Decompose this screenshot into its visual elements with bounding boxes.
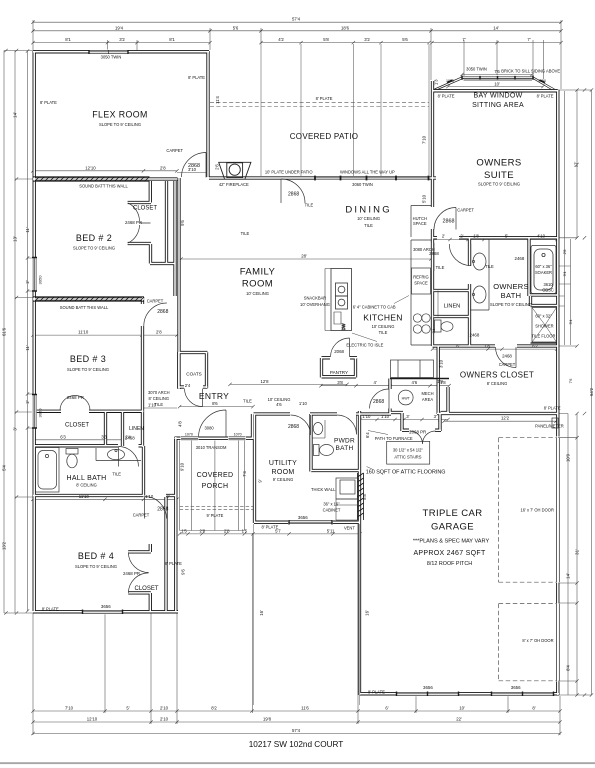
svg-text:2'8: 2'8 xyxy=(199,528,205,533)
svg-text:1050: 1050 xyxy=(538,79,546,83)
door 2068 pantry (swing up) xyxy=(331,338,350,357)
svg-text:5'4: 5'4 xyxy=(2,465,7,471)
kitchen hall dims xyxy=(141,386,449,408)
HWT xyxy=(398,390,413,405)
mech dims xyxy=(360,419,448,421)
svg-text:UTILITY: UTILITY xyxy=(269,460,297,467)
svg-text:10' PLATE UNDER PATIO: 10' PLATE UNDER PATIO xyxy=(265,170,313,175)
svg-text:THICK WALL: THICK WALL xyxy=(311,487,336,492)
garage OH door lines on wall xyxy=(557,438,560,681)
svg-text:SPACE: SPACE xyxy=(414,281,428,286)
svg-text:2468 PR: 2468 PR xyxy=(125,220,142,225)
svg-text:10': 10' xyxy=(459,706,465,711)
svg-text:PWDR: PWDR xyxy=(334,438,355,445)
svg-text:8' PLATE: 8' PLATE xyxy=(368,689,385,694)
svg-text:BATH: BATH xyxy=(335,445,353,452)
porch dashed plate lines xyxy=(180,506,253,509)
svg-text:VENT: VENT xyxy=(344,525,355,530)
bay dims 7'6 and 10' xyxy=(448,75,543,87)
right dim col 4 (bath fixtures) xyxy=(558,91,571,345)
dimension text: top rows xyxy=(65,17,531,87)
svg-text:3': 3' xyxy=(13,427,18,430)
svg-text:PORCH: PORCH xyxy=(202,483,229,490)
svg-text:9' PLATE: 9' PLATE xyxy=(206,513,223,518)
svg-text:CARPET: CARPET xyxy=(457,208,474,213)
svg-text:COVERED PATIO: COVERED PATIO xyxy=(290,132,359,141)
svg-text:SLOPE TO 9' CEILING: SLOPE TO 9' CEILING xyxy=(478,182,520,187)
svg-text:5': 5' xyxy=(126,706,129,711)
svg-text:APPROX 2467 SQFT: APPROX 2467 SQFT xyxy=(413,550,486,557)
door 2868 owners suite (swing into suite) xyxy=(434,208,456,230)
window glyphs xyxy=(32,50,554,696)
svg-text:2868: 2868 xyxy=(288,192,299,198)
svg-text:2'10: 2'10 xyxy=(160,706,169,711)
svg-text:3656: 3656 xyxy=(423,685,433,690)
svg-text:1070: 1070 xyxy=(234,433,242,437)
svg-text:14': 14' xyxy=(493,25,499,30)
dimension text: interior xyxy=(60,165,545,533)
svg-text:SLOPE TO 9' CEILING: SLOPE TO 9' CEILING xyxy=(75,564,117,569)
svg-text:TILE: TILE xyxy=(243,399,252,404)
bed3 dims row xyxy=(33,334,177,336)
porch outline xyxy=(180,441,245,531)
hatch: garage thick wall xyxy=(358,473,364,520)
svg-text:3656: 3656 xyxy=(101,604,111,609)
svg-text:8' PLATE: 8' PLATE xyxy=(537,93,554,98)
svg-text:2468 PR: 2468 PR xyxy=(123,571,140,576)
svg-text:3'2: 3'2 xyxy=(364,37,370,42)
svg-text:CARPET: CARPET xyxy=(499,362,516,367)
svg-text:7'4: 7'4 xyxy=(242,471,247,477)
door 2468PR bed4 closet butterfly xyxy=(128,553,148,593)
door 3080 entry (swing up-left into entry) xyxy=(199,410,227,438)
svg-text:1'10: 1'10 xyxy=(299,401,308,406)
svg-text:12'10: 12'10 xyxy=(85,165,96,170)
svg-text:BATH: BATH xyxy=(501,291,522,300)
svg-text:3050: 3050 xyxy=(38,275,43,285)
svg-text:61'6: 61'6 xyxy=(2,327,7,336)
svg-text:SLOPE TO 9' CEILING: SLOPE TO 9' CEILING xyxy=(490,302,532,307)
window 3050 bed2 left xyxy=(33,258,36,292)
svg-text:COVERED: COVERED xyxy=(197,472,234,479)
door 2468 powder (swing down-left) xyxy=(337,415,357,435)
svg-text:DW: DW xyxy=(341,323,346,330)
bottom dim rows xyxy=(33,711,560,734)
svg-text:2868: 2868 xyxy=(373,399,384,405)
svg-text:2868: 2868 xyxy=(429,251,439,256)
svg-text:CLOSET: CLOSET xyxy=(133,206,157,212)
svg-text:***PLANS & SPEC MAY VARY: ***PLANS & SPEC MAY VARY xyxy=(413,539,490,545)
svg-text:10' CEILING: 10' CEILING xyxy=(246,291,269,296)
door 2068PR mech butterfly xyxy=(410,431,436,444)
svg-text:8' PLATE: 8' PLATE xyxy=(188,75,205,80)
svg-text:3050 TWIN: 3050 TWIN xyxy=(466,67,487,72)
svg-text:MECH: MECH xyxy=(421,391,433,396)
svg-text:10' OVERHANG: 10' OVERHANG xyxy=(300,302,330,307)
svg-text:2'4: 2'4 xyxy=(185,383,191,388)
svg-text:3': 3' xyxy=(406,414,409,419)
svg-text:10'9: 10'9 xyxy=(566,453,571,462)
svg-text:OWNERS CLOSET: OWNERS CLOSET xyxy=(460,371,534,380)
window 3656 bed4 bottom xyxy=(83,610,123,613)
svg-text:60" x 36": 60" x 36" xyxy=(535,264,552,269)
rotated interior dims xyxy=(180,79,444,616)
sidelite windows 1070 entry xyxy=(181,437,198,440)
svg-text:10': 10' xyxy=(494,82,500,87)
svg-text:8' PLATE: 8' PLATE xyxy=(438,93,455,98)
svg-text:4'6: 4'6 xyxy=(276,402,282,407)
svg-text:BAY WINDOW: BAY WINDOW xyxy=(473,93,522,100)
owners WC toilet xyxy=(435,320,454,332)
wall: kitchen counterwall south xyxy=(390,378,449,380)
patio roof dashed lines xyxy=(210,102,429,106)
svg-text:7': 7' xyxy=(462,37,465,42)
hall bath vanity xyxy=(96,448,141,461)
svg-text:2868: 2868 xyxy=(157,507,168,513)
svg-text:3'8: 3'8 xyxy=(337,380,343,385)
svg-text:2'8: 2'8 xyxy=(563,250,567,255)
right dim col 2 xyxy=(558,238,577,414)
svg-text:PATH TO FURNACE: PATH TO FURNACE xyxy=(375,436,413,441)
utility cabinet + sink xyxy=(336,478,359,520)
svg-text:2'8: 2'8 xyxy=(156,330,162,335)
svg-text:PANTRY: PANTRY xyxy=(330,370,348,375)
door 2868 utility (swing down-right) xyxy=(291,415,311,435)
svg-text:5'7: 5'7 xyxy=(275,528,281,533)
svg-text:12'2: 12'2 xyxy=(501,416,510,421)
svg-text:REFRIG: REFRIG xyxy=(413,275,428,280)
svg-text:10217 SW 102nd COURT: 10217 SW 102nd COURT xyxy=(249,740,344,749)
svg-text:3060 TWIN: 3060 TWIN xyxy=(352,182,373,187)
window 3656 utility bottom xyxy=(289,521,332,524)
svg-text:TILE: TILE xyxy=(241,231,250,236)
svg-text:1'5: 1'5 xyxy=(242,528,248,533)
svg-text:4'2: 4'2 xyxy=(278,37,284,42)
svg-text:2068: 2068 xyxy=(334,349,344,354)
svg-text:4'10: 4'10 xyxy=(537,233,546,238)
svg-text:WINDOWS ALL THE WAY UP: WINDOWS ALL THE WAY UP xyxy=(340,170,395,175)
svg-text:13'2: 13'2 xyxy=(2,541,7,550)
svg-text:CLOSET: CLOSET xyxy=(134,586,158,592)
svg-text:ROOM: ROOM xyxy=(242,279,273,290)
door 2868 bed4 (swing down into bed4) xyxy=(145,497,167,519)
svg-text:KITCHEN: KITCHEN xyxy=(363,313,402,323)
kitchen island xyxy=(325,269,352,331)
svg-text:13': 13' xyxy=(13,236,18,242)
svg-text:1'10: 1'10 xyxy=(362,414,371,419)
svg-text:16': 16' xyxy=(259,610,264,616)
svg-text:11'6: 11'6 xyxy=(301,706,309,711)
svg-text:11': 11' xyxy=(25,345,30,350)
svg-text:3050: 3050 xyxy=(38,408,43,418)
svg-text:FLEX ROOM: FLEX ROOM xyxy=(92,110,147,120)
svg-text:BED # 3: BED # 3 xyxy=(70,354,106,364)
svg-text:9'10: 9'10 xyxy=(180,462,185,471)
svg-text:2468 PR: 2468 PR xyxy=(67,395,84,400)
svg-text:CLOSET: CLOSET xyxy=(65,423,89,429)
svg-text:5': 5' xyxy=(505,233,508,238)
svg-text:SLOPE TO 9' CEILING: SLOPE TO 9' CEILING xyxy=(99,122,141,127)
svg-text:CARPET: CARPET xyxy=(166,148,183,153)
svg-text:8'2: 8'2 xyxy=(211,706,217,711)
svg-text:3'10: 3'10 xyxy=(438,359,443,368)
hatch: sound batt wall bed3 xyxy=(33,297,144,301)
svg-text:57'4: 57'4 xyxy=(292,17,301,22)
svg-text:CARPET: CARPET xyxy=(133,513,150,518)
svg-text:8' CEILING: 8' CEILING xyxy=(149,396,170,401)
powder toilet xyxy=(314,445,334,456)
garage OH door dashed rect 8ft xyxy=(499,604,557,681)
svg-text:64'2: 64'2 xyxy=(589,387,594,396)
svg-text:10' CEILING: 10' CEILING xyxy=(372,324,395,329)
owners bath vanity xyxy=(470,239,489,311)
covered patio columns xyxy=(261,44,429,176)
svg-text:8' CEILING: 8' CEILING xyxy=(76,483,97,488)
svg-text:SOUND BATT THIS WALL: SOUND BATT THIS WALL xyxy=(60,305,109,310)
svg-text:SNACKBAR: SNACKBAR xyxy=(304,296,327,301)
svg-text:19'8: 19'8 xyxy=(263,717,272,722)
svg-text:2': 2' xyxy=(442,233,445,238)
svg-text:11': 11' xyxy=(25,227,30,232)
svg-text:TILE FLOOR: TILE FLOOR xyxy=(532,334,556,339)
right dim col far: 64'2 xyxy=(558,90,592,695)
svg-text:2': 2' xyxy=(25,280,30,283)
window band dining top (windows all the way up) xyxy=(315,176,429,179)
svg-text:8'4: 8'4 xyxy=(566,665,571,671)
svg-text:SOAKER: SOAKER xyxy=(535,270,552,275)
svg-text:3': 3' xyxy=(434,414,437,419)
svg-text:OWNERS: OWNERS xyxy=(493,282,529,291)
svg-text:2'10: 2'10 xyxy=(160,717,169,722)
svg-text:GARAGE: GARAGE xyxy=(431,522,474,533)
svg-text:9': 9' xyxy=(258,479,263,482)
svg-text:1'8: 1'8 xyxy=(473,233,479,238)
svg-text:2': 2' xyxy=(166,494,169,499)
svg-text:2468: 2468 xyxy=(502,353,512,358)
svg-text:8' PLATE: 8' PLATE xyxy=(165,561,182,566)
svg-text:8' PLATE: 8' PLATE xyxy=(544,405,561,410)
svg-text:14': 14' xyxy=(566,573,571,579)
leader lines xyxy=(352,296,409,470)
svg-text:3050 TWIN: 3050 TWIN xyxy=(101,55,122,60)
svg-text:11'10: 11'10 xyxy=(78,330,89,335)
svg-text:16' x 7' OH DOOR: 16' x 7' OH DOOR xyxy=(520,507,553,512)
svg-text:SUITE: SUITE xyxy=(484,170,514,181)
svg-text:DINING: DINING xyxy=(345,205,391,216)
svg-text:5'8: 5'8 xyxy=(362,494,367,500)
window 3050 twin flex top xyxy=(89,50,128,54)
svg-text:3'4: 3'4 xyxy=(432,329,436,334)
svg-text:22': 22' xyxy=(456,717,462,722)
svg-text:17': 17' xyxy=(574,162,579,168)
svg-text:14': 14' xyxy=(13,112,18,118)
walls (double line) xyxy=(33,51,559,695)
svg-text:12'10: 12'10 xyxy=(87,717,98,722)
svg-text:6'4: 6'4 xyxy=(365,432,370,438)
svg-text:8' PLATE: 8' PLATE xyxy=(40,100,57,105)
svg-text:6'2: 6'2 xyxy=(532,344,538,349)
door 2868 patio to family (swing down-left) xyxy=(281,179,305,203)
svg-text:3010 TRANSOM: 3010 TRANSOM xyxy=(196,445,227,450)
attic stairs box xyxy=(387,441,430,464)
dimension text: right col rotated xyxy=(563,162,594,671)
window 3050 bed3 left xyxy=(33,395,36,429)
svg-text:HALL BATH: HALL BATH xyxy=(66,475,106,482)
svg-text:57'4: 57'4 xyxy=(292,728,301,733)
fireplace xyxy=(219,162,251,179)
right dim col 3 xyxy=(558,90,577,695)
svg-text:TILE: TILE xyxy=(436,265,445,270)
panel/meter box xyxy=(552,418,558,428)
bottom extension lines xyxy=(33,524,560,735)
svg-text:1'5: 1'5 xyxy=(181,528,187,533)
svg-text:2068 PR: 2068 PR xyxy=(409,430,426,435)
hutch space niche xyxy=(411,206,431,238)
svg-text:8'1: 8'1 xyxy=(169,37,175,42)
svg-text:AREA: AREA xyxy=(422,397,433,402)
hall bath tub xyxy=(36,448,60,493)
closet band dims xyxy=(35,439,122,441)
svg-text:30 1/2" x 54 1/2": 30 1/2" x 54 1/2" xyxy=(393,448,424,453)
hatch: sound batt wall bed2 xyxy=(33,177,150,181)
svg-text:2'4: 2'4 xyxy=(125,434,131,439)
svg-text:6' 4" CABINET TO CAB: 6' 4" CABINET TO CAB xyxy=(353,304,396,309)
svg-text:5'11: 5'11 xyxy=(327,528,335,533)
svg-text:8' CEILING: 8' CEILING xyxy=(487,381,508,386)
svg-text:9' CEILING: 9' CEILING xyxy=(273,477,294,482)
top dim row 3 segments xyxy=(33,42,561,44)
svg-text:ENTRY: ENTRY xyxy=(199,391,229,401)
svg-text:5'6: 5'6 xyxy=(402,37,408,42)
left dim col 2 xyxy=(15,51,33,614)
svg-text:1'8: 1'8 xyxy=(484,344,490,349)
svg-text:TILE: TILE xyxy=(305,203,314,208)
svg-text:36" x 16": 36" x 16" xyxy=(323,502,340,507)
svg-text:CABINET: CABINET xyxy=(323,508,341,513)
svg-text:160 SQFT OF ATTIC FLOORING: 160 SQFT OF ATTIC FLOORING xyxy=(366,470,446,476)
svg-text:1050: 1050 xyxy=(446,79,454,83)
svg-text:7': 7' xyxy=(527,37,530,42)
svg-text:6'3: 6'3 xyxy=(60,434,66,439)
svg-text:4'8: 4'8 xyxy=(178,421,183,427)
owners bath bottom dims xyxy=(433,348,558,350)
svg-text:TILE: TILE xyxy=(379,330,388,335)
door 2468 owners closet (swing down) xyxy=(496,347,517,368)
window gaps painted white xyxy=(32,50,554,697)
svg-text:3'3: 3'3 xyxy=(101,434,107,439)
owners suite bottom dims xyxy=(433,239,558,241)
page edge artifact xyxy=(0,762,595,764)
svg-text:6': 6' xyxy=(385,706,388,711)
wall: shower south lip xyxy=(531,342,558,344)
svg-text:4'6: 4'6 xyxy=(411,380,417,385)
svg-text:BRICK TO SILL SIDING ABOVE: BRICK TO SILL SIDING ABOVE xyxy=(501,69,560,74)
svg-text:2468: 2468 xyxy=(470,333,480,338)
door 2468PR hall closet butterfly (swing up) xyxy=(60,396,90,411)
svg-text:LINEN: LINEN xyxy=(444,304,460,310)
owners bath shower xyxy=(532,308,557,343)
svg-text:42" FIREPLACE: 42" FIREPLACE xyxy=(219,182,249,187)
left dim col 1: 61'6 xyxy=(4,51,33,614)
svg-text:BED # 2: BED # 2 xyxy=(76,233,112,243)
svg-text:10' CEILING: 10' CEILING xyxy=(357,216,380,221)
svg-text:18'6: 18'6 xyxy=(341,25,350,30)
svg-text:HWT: HWT xyxy=(402,396,411,400)
svg-text:8'6: 8'6 xyxy=(212,401,218,406)
linen shelves xyxy=(437,291,439,317)
owners closet bottom dims xyxy=(444,420,556,422)
kitchen east counter xyxy=(411,240,431,345)
svg-text:3080: 3080 xyxy=(205,426,215,431)
svg-text:2'6: 2'6 xyxy=(215,164,220,170)
svg-text:5'10: 5'10 xyxy=(421,194,426,203)
svg-text:7'10: 7'10 xyxy=(65,706,74,711)
top dim row 1: 57'4 xyxy=(33,21,561,23)
svg-text:8': 8' xyxy=(532,706,535,711)
svg-text:ROOM: ROOM xyxy=(272,469,295,476)
entry dims xyxy=(180,384,347,406)
bed2 dims row xyxy=(33,171,206,173)
svg-text:19'4: 19'4 xyxy=(115,25,124,30)
door 2868 kitchen/mech hall xyxy=(370,389,390,409)
garage side yard lines xyxy=(254,524,360,705)
bed4 top dims xyxy=(33,498,177,500)
door 2868 bed3 (swing into bed3) xyxy=(144,303,167,326)
svg-text:SLOPE TO 9' CEILING: SLOPE TO 9' CEILING xyxy=(67,367,109,372)
svg-text:11'10: 11'10 xyxy=(79,494,90,499)
svg-text:3070 ARCH: 3070 ARCH xyxy=(148,390,170,395)
svg-text:CARPET: CARPET xyxy=(147,299,164,304)
svg-text:PANEL/METER: PANEL/METER xyxy=(535,424,564,429)
owners bath soaker tub xyxy=(531,246,556,294)
svg-text:5'8: 5'8 xyxy=(323,37,329,42)
porch bottom dims xyxy=(180,533,360,535)
svg-text:8' PLATE: 8' PLATE xyxy=(316,96,333,101)
svg-text:8/12 ROOF PITCH: 8/12 ROOF PITCH xyxy=(427,561,472,567)
garage OH door dashed rect 16ft xyxy=(499,438,557,583)
svg-text:2868: 2868 xyxy=(157,309,168,315)
svg-text:5'4: 5'4 xyxy=(569,320,573,325)
svg-text:3656: 3656 xyxy=(298,515,308,520)
svg-text:SOUND BATT THIS WALL: SOUND BATT THIS WALL xyxy=(79,184,128,189)
door 2468 owners bath (swing into bath) xyxy=(449,244,471,266)
svg-text:SITTING AREA: SITTING AREA xyxy=(472,102,524,109)
svg-text:COATS: COATS xyxy=(186,372,201,377)
top dim row 2 xyxy=(33,30,561,32)
svg-text:9'4: 9'4 xyxy=(563,272,567,277)
svg-text:16': 16' xyxy=(364,610,369,616)
svg-text:3'10: 3'10 xyxy=(188,167,197,172)
svg-text:4': 4' xyxy=(373,380,376,385)
svg-text:28': 28' xyxy=(301,254,307,259)
svg-text:8' PLATE: 8' PLATE xyxy=(42,606,59,611)
door 2868 flex room (swing up into flex) xyxy=(182,153,207,178)
svg-text:9'6: 9'6 xyxy=(180,220,185,226)
svg-text:3'2: 3'2 xyxy=(119,37,125,42)
svg-text:1'3: 1'3 xyxy=(433,79,438,85)
left dim col 3 xyxy=(28,51,34,611)
mid 28' dim xyxy=(181,258,431,260)
dining arch marks xyxy=(431,243,434,271)
svg-text:1'10: 1'10 xyxy=(381,414,390,419)
svg-text:2868: 2868 xyxy=(288,424,299,430)
svg-text:OBSC: OBSC xyxy=(542,288,554,293)
svg-text:12'8: 12'8 xyxy=(261,379,270,384)
svg-text:SHOWER: SHOWER xyxy=(535,324,553,329)
svg-text:2468: 2468 xyxy=(515,256,525,261)
dimension text: left col rotated xyxy=(2,112,31,550)
svg-text:TILE: TILE xyxy=(364,223,373,228)
